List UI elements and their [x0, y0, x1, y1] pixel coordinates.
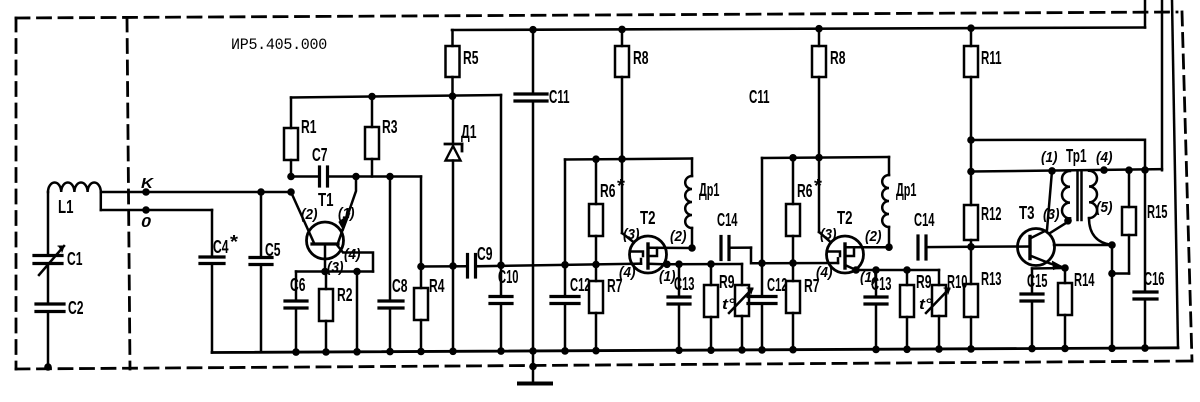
thermistor (stage 1): [722, 264, 753, 354]
svg-text:Тр1: Тр1: [1066, 146, 1087, 166]
T2 stage1 emitter line: [667, 263, 742, 266]
inductor Dr1 (stage 1): [685, 159, 719, 252]
return pigtail (down to bus right end): [1161, 0, 1164, 170]
T1 emitter node line: [296, 270, 373, 273]
svg-text:R9: R9: [719, 272, 735, 292]
transformer Tr1: [1041, 146, 1113, 221]
resistor R9 (stage 2): [900, 266, 932, 353]
svg-text:R14: R14: [1074, 270, 1095, 290]
inductor L1: [48, 182, 101, 217]
wire O line down to C4: [211, 210, 214, 257]
svg-text:R6: R6: [600, 181, 616, 201]
svg-text:R13: R13: [981, 269, 1002, 289]
T2 collector feed lead (3) (stage 2): [819, 232, 831, 243]
winding (4) node: [1100, 166, 1108, 174]
svg-text:(3): (3): [623, 226, 640, 243]
wire C7 line corner down to R4 node: [420, 177, 423, 267]
capacitor C4*: [200, 257, 224, 264]
resistor R7 (stage 2): [786, 263, 820, 353]
svg-text:C9: C9: [477, 244, 493, 264]
resistor R2: [319, 272, 353, 356]
svg-text:ИР5.405.000: ИР5.405.000: [231, 36, 327, 54]
svg-text:R6: R6: [797, 181, 813, 201]
base bar: [312, 242, 338, 245]
svg-text:C7: C7: [312, 145, 328, 165]
wire K line: [101, 191, 291, 194]
capacitor C11: [515, 26, 570, 355]
stage 1 top box line: [565, 159, 692, 160]
title text ИР5.405.000: [231, 36, 327, 54]
node joining K line to T1: [287, 188, 295, 196]
wire L1 tap down to O line: [100, 192, 103, 210]
transistor T1: [291, 177, 373, 277]
T3 right stub to feedback line: [1054, 244, 1112, 247]
resistor R12: [964, 140, 1002, 251]
svg-text:R11: R11: [981, 48, 1002, 68]
resistor R1: [284, 98, 317, 177]
primary line pigtail corner up: [1172, 0, 1178, 348]
diode D1 (zener): [445, 96, 477, 355]
capacitor C14 (stage 2): [914, 210, 971, 259]
feedback vertical to bus: [1111, 245, 1114, 348]
svg-text:T2: T2: [640, 208, 656, 228]
thermistor R10 (stage 2): [919, 270, 968, 353]
capacitor C5: [250, 258, 272, 265]
resistor R4: [414, 267, 445, 356]
T3 base line: [971, 245, 1028, 248]
svg-text:(4): (4): [816, 264, 833, 281]
capacitor C14 (stage 1): [717, 210, 751, 260]
top supply rail: [452, 28, 1145, 31]
collector lead (1) from C7 line: [338, 177, 356, 244]
capacitor C1 (variable): [34, 256, 62, 264]
wire C1 to C2: [47, 264, 50, 305]
transistor T3: [1018, 167, 1072, 272]
interstage coupling corner: [751, 248, 838, 264]
capacitor C2: [36, 304, 64, 312]
capacitor C8: [379, 177, 408, 356]
junction nodes on C7 line: [352, 173, 360, 181]
svg-text:*: *: [230, 232, 238, 252]
capacitor C15: [1021, 268, 1065, 352]
ground symbol: [519, 351, 551, 384]
svg-text:L1: L1: [58, 197, 74, 217]
wire C5 down to bus: [260, 265, 263, 353]
wire O line: [101, 209, 212, 212]
resistor R3: [365, 93, 398, 177]
svg-text:(4): (4): [344, 246, 361, 263]
svg-text:Др1: Др1: [896, 180, 917, 200]
junction on shield: [44, 363, 52, 371]
capacitor C13 (stage 2): [865, 266, 892, 353]
svg-text:(1): (1): [338, 205, 355, 222]
svg-text:R2: R2: [337, 285, 353, 305]
supply pigtail (rail corner up through border): [1144, 0, 1147, 28]
resistor R8 (stage 1): [615, 26, 649, 233]
svg-text:(4): (4): [619, 264, 636, 281]
wire node to bus at 357: [356, 272, 359, 352]
node K: [142, 188, 150, 196]
svg-text:C12: C12: [570, 275, 591, 295]
resistor R6* (stage 1): [589, 155, 625, 268]
transformer primary supply line (1)-(4): [971, 169, 1162, 171]
capacitor C10: [490, 95, 519, 355]
svg-text:C10: C10: [498, 267, 519, 287]
svg-text:K: K: [141, 175, 154, 192]
emitter lead (2) from K node: [291, 192, 314, 243]
arrow on collector lead: [339, 214, 350, 230]
common bottom bus: [212, 348, 1178, 353]
svg-text:C8: C8: [392, 276, 408, 296]
svg-text:T2: T2: [837, 208, 853, 228]
capacitor C13 (stage 1): [668, 260, 695, 354]
svg-text:C4: C4: [213, 237, 229, 257]
svg-text:T1: T1: [318, 190, 334, 210]
svg-text:C5: C5: [265, 240, 281, 260]
svg-text:C12: C12: [767, 275, 788, 295]
resistor R5: [446, 30, 479, 100]
stage 2 top box line: [762, 157, 889, 158]
svg-text:(2): (2): [670, 228, 687, 245]
resistor R6* (stage 2): [786, 154, 822, 267]
wire L1 left down to C1: [47, 192, 50, 255]
resistor R13: [964, 247, 1002, 353]
wire C4 down to bus (left end of common bus): [211, 264, 214, 353]
base lead (3) down: [324, 244, 327, 272]
capacitor C6: [285, 272, 307, 356]
svg-text:C6: C6: [290, 275, 306, 295]
wire C5 branch from K line: [257, 188, 265, 196]
svg-text:C11: C11: [749, 87, 770, 107]
svg-text:R15: R15: [1147, 202, 1168, 222]
resistor R8 (stage 2): [812, 25, 846, 232]
svg-text:C14: C14: [717, 210, 738, 230]
svg-text:C14: C14: [914, 210, 935, 230]
svg-text:R1: R1: [301, 117, 317, 137]
svg-text:Др1: Др1: [699, 180, 720, 200]
T2 stage2 emitter line: [856, 269, 939, 272]
svg-text:(1): (1): [1041, 149, 1058, 166]
wire C2 down to shield border: [47, 312, 50, 368]
svg-text:(3): (3): [327, 259, 344, 276]
svg-text:C15: C15: [1027, 271, 1048, 291]
node O: [142, 206, 150, 214]
svg-text:C13: C13: [674, 274, 695, 294]
T2 collector feed lead (3) (stage 1): [622, 233, 634, 243]
resistor R7 (stage 1): [589, 265, 623, 355]
secondary (5) tap: [1089, 218, 1112, 245]
svg-text:(3): (3): [1043, 206, 1060, 223]
transistor T2 (stage 2): [816, 208, 889, 286]
upper bias line R1/R3/R5: [291, 95, 501, 98]
capacitor C12 (stage 1): [551, 160, 591, 355]
svg-text:(3): (3): [820, 226, 837, 243]
svg-text:C2: C2: [68, 298, 84, 318]
C7 coupling line: [291, 175, 320, 178]
svg-text:T3: T3: [1019, 203, 1035, 223]
svg-text:R5: R5: [463, 48, 479, 68]
svg-text:C13: C13: [871, 274, 892, 294]
capacitor C9: [468, 255, 476, 278]
svg-text:(4): (4): [1096, 149, 1113, 166]
svg-text:C1: C1: [67, 249, 83, 269]
svg-text:C11: C11: [549, 87, 570, 107]
resistor R9 (stage 1): [704, 260, 735, 354]
capacitor C12 (stage 2): [748, 158, 788, 354]
inner dashed partition: [127, 18, 130, 369]
svg-text:Д1: Д1: [461, 122, 477, 142]
capacitor C16: [1134, 166, 1165, 352]
main coupling line to T2 stage 1: [421, 265, 467, 268]
lead (4) loop: [337, 245, 373, 272]
svg-text:R4: R4: [429, 276, 445, 296]
B+ feed line from R11/R12 node to right-side corner: [971, 140, 1145, 170]
inductor Dr1 (stage 2): [882, 157, 916, 251]
svg-text:t°: t°: [722, 296, 736, 313]
svg-text:0: 0: [141, 214, 152, 231]
svg-text:t°: t°: [919, 296, 933, 313]
stage 2 C11 label (no cap drawn in original): [749, 87, 770, 107]
svg-text:R9: R9: [916, 272, 932, 292]
svg-text:(2): (2): [865, 228, 882, 245]
transistor T2 (stage 1): [619, 208, 692, 285]
svg-text:(2): (2): [301, 206, 318, 223]
svg-text:R3: R3: [382, 117, 398, 137]
svg-text:C16: C16: [1144, 269, 1165, 289]
svg-text:R8: R8: [633, 48, 649, 68]
resistor R14: [1058, 268, 1095, 352]
resistor R11: [964, 24, 1002, 143]
svg-text:R12: R12: [981, 204, 1002, 224]
resistor R15: [1112, 166, 1168, 273]
capacitor C7: [320, 167, 328, 186]
svg-text:(5): (5): [1096, 199, 1113, 216]
svg-text:R8: R8: [830, 48, 846, 68]
